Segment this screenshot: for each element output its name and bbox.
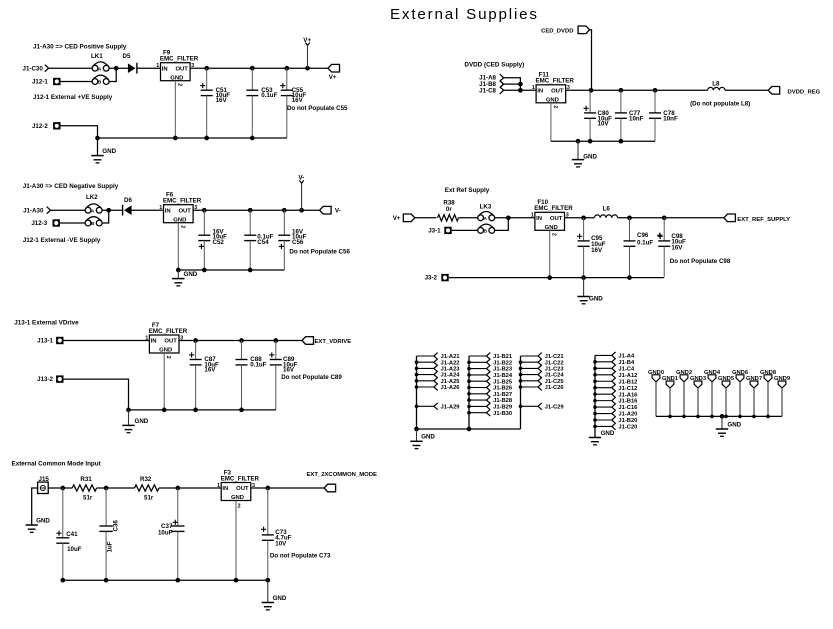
junction (589, 88, 594, 93)
pin J1-C24 (521, 374, 539, 376)
svg-text:16V: 16V (671, 244, 683, 251)
svg-text:J1-B26: J1-B26 (493, 386, 513, 392)
capacitor C78 (654, 90, 656, 113)
pin J1-B30 (469, 412, 487, 414)
svg-text:J1-A4: J1-A4 (618, 354, 635, 360)
wire bottom rail (98, 137, 287, 139)
svg-text:External Common Mode Input: External Common Mode Input (12, 461, 102, 468)
svg-text:10nF: 10nF (629, 115, 644, 122)
junction (162, 408, 167, 413)
svg-text:J12-1 External -VE Supply: J12-1 External -VE Supply (23, 237, 101, 244)
pin J1-B25 (469, 380, 487, 382)
capacitor C36 (105, 488, 107, 526)
svg-text:J1-A30 => CED Positive Supply: J1-A30 => CED Positive Supply (33, 44, 127, 51)
svg-text:J13-2: J13-2 (37, 376, 53, 383)
junction (619, 139, 624, 144)
svg-text:EXT_2XCOMMON_MODE: EXT_2XCOMMON_MODE (307, 472, 377, 478)
ground (721, 416, 723, 429)
capacitor C95 (583, 218, 585, 241)
wire (159, 487, 221, 489)
wire ground terminal rail (656, 415, 782, 417)
junction (653, 88, 658, 93)
svg-text:1: 1 (156, 63, 159, 69)
pin J1-B28 (469, 399, 487, 401)
svg-text:Do not Populate C56: Do not Populate C56 (289, 248, 350, 255)
svg-text:V+: V+ (329, 74, 337, 81)
terminal DVDD_REG (768, 87, 780, 95)
svg-text:EMC_FILTER: EMC_FILTER (163, 198, 202, 205)
junction (282, 208, 287, 213)
svg-text:B: B (483, 229, 487, 235)
svg-text:J1-B22: J1-B22 (493, 360, 512, 366)
svg-text:16V: 16V (216, 97, 228, 104)
junction (202, 208, 207, 213)
connector cluster J1-A4 to J1-C20 (594, 355, 596, 437)
svg-text:1: 1 (159, 205, 162, 211)
pin J1-C12 (595, 387, 612, 389)
junction (114, 66, 119, 71)
wire F6 ground pin (177, 223, 179, 270)
svg-text:GND: GND (102, 148, 116, 155)
wire (137, 67, 161, 69)
svg-text:10V: 10V (275, 540, 287, 547)
capacitor C54 (249, 210, 251, 235)
capacitor C98 (663, 218, 665, 241)
svg-text:16V: 16V (283, 367, 295, 374)
pin J1-C4 (595, 367, 612, 369)
svg-text:EMC_FILTER: EMC_FILTER (160, 56, 199, 63)
svg-text:GND: GND (231, 495, 244, 501)
svg-text:J3-1: J3-1 (428, 228, 441, 235)
svg-text:10uF: 10uF (158, 530, 173, 537)
svg-text:GND: GND (601, 430, 615, 437)
connector cluster J1-C21 to J1-C26 (520, 356, 522, 429)
svg-text:C41: C41 (66, 531, 78, 538)
wire (566, 89, 708, 91)
svg-text:16V: 16V (591, 247, 603, 254)
ground (416, 429, 418, 441)
svg-text:IN: IN (537, 88, 543, 94)
connector J13-1 (56, 337, 63, 344)
wire (49, 67, 93, 69)
wire (97, 487, 135, 489)
svg-text:J1-C21: J1-C21 (545, 354, 565, 360)
pin J1-C26 (521, 386, 539, 388)
svg-text:J13-1: J13-1 (37, 338, 53, 345)
junction (104, 578, 109, 583)
terminal EXT_REF_SUPPLY (724, 214, 736, 222)
svg-text:EXT_REF_SUPPLY: EXT_REF_SUPPLY (737, 217, 790, 223)
capacitor C41 (62, 488, 64, 538)
svg-text:C54: C54 (257, 239, 269, 246)
wire (64, 340, 150, 342)
pin J1-C16 (595, 406, 612, 408)
svg-text:J12-2: J12-2 (32, 123, 48, 130)
junction (239, 408, 244, 413)
svg-text:16V: 16V (204, 367, 216, 374)
wire (495, 217, 535, 219)
svg-text:0.1uF: 0.1uF (250, 361, 266, 368)
capacitor C73 (267, 488, 269, 535)
wire (452, 229, 478, 231)
capacitor C88 (241, 341, 243, 360)
svg-text:GND: GND (589, 296, 603, 303)
junction (126, 408, 131, 413)
svg-text:J1-A23: J1-A23 (441, 367, 461, 373)
wire (190, 67, 328, 69)
junction (95, 136, 100, 141)
ground (577, 141, 579, 159)
junction (273, 338, 278, 343)
capacitor C80 (589, 90, 591, 113)
pin J1-A16 (595, 393, 612, 395)
svg-text:1: 1 (217, 483, 220, 489)
svg-text:GND: GND (421, 434, 435, 441)
wire bottom rail (551, 140, 655, 142)
wire (64, 379, 129, 410)
pin J1-C23 (521, 367, 539, 369)
svg-text:External Supplies: External Supplies (390, 6, 539, 23)
svg-text:1uF: 1uF (107, 541, 114, 552)
terminal EXT_VDRIVE (302, 337, 314, 345)
svg-text:IN: IN (222, 486, 228, 492)
svg-text:J1-C29: J1-C29 (545, 404, 565, 410)
svg-text:IN: IN (162, 66, 168, 72)
wire bottom rail (129, 409, 276, 411)
svg-text:10V: 10V (598, 121, 610, 128)
wire F3 ground pin (235, 501, 237, 581)
pin J1-B23 (469, 368, 487, 370)
junction (204, 66, 209, 71)
svg-text:2: 2 (552, 105, 558, 108)
ground (267, 580, 269, 602)
junction (193, 338, 198, 343)
junction (234, 578, 239, 583)
svg-text:LK3: LK3 (480, 204, 492, 211)
junction (202, 268, 207, 273)
svg-text:J1-A24: J1-A24 (441, 373, 461, 379)
capacitor C56 (283, 210, 285, 235)
svg-text:J1-A12: J1-A12 (618, 373, 637, 379)
svg-text:OUT: OUT (236, 486, 249, 492)
pin J1-A26 (417, 386, 434, 388)
junction (662, 215, 667, 220)
wire bottom rail (63, 579, 268, 581)
junction (250, 66, 255, 71)
junction (547, 275, 552, 280)
terminal V+ (328, 64, 340, 72)
junction (581, 215, 586, 220)
capacitor C89 (275, 341, 277, 360)
junction (619, 88, 624, 93)
wire F10 ground pin (549, 230, 551, 276)
svg-text:(Do not populate L8): (Do not populate L8) (690, 101, 750, 108)
svg-text:J1-C22: J1-C22 (545, 360, 564, 366)
jumper LK1 row B (92, 79, 98, 85)
svg-text:LK2: LK2 (86, 194, 98, 201)
connector J3-1 (444, 227, 451, 234)
svg-text:0r: 0r (446, 206, 452, 213)
svg-text:J1-B21: J1-B21 (493, 354, 513, 360)
pin J1-C21 (521, 355, 539, 357)
svg-text:B: B (91, 221, 95, 227)
svg-text:A: A (98, 66, 102, 72)
junction (518, 88, 523, 93)
wire (61, 81, 93, 83)
svg-text:CED_DVDD: CED_DVDD (541, 29, 573, 35)
svg-text:J13-1 External VDrive: J13-1 External VDrive (14, 320, 79, 327)
svg-text:R32: R32 (140, 476, 152, 483)
junction (176, 268, 181, 273)
svg-text:GND: GND (159, 348, 172, 354)
svg-text:J1-A29: J1-A29 (441, 404, 461, 410)
svg-text:LK1: LK1 (91, 53, 103, 60)
svg-text:J1-C25: J1-C25 (545, 379, 565, 385)
svg-text:GND: GND (546, 97, 559, 103)
svg-text:J1-B20: J1-B20 (618, 418, 637, 424)
capacitor C55 (286, 68, 288, 90)
wire F7 ground pin (163, 353, 165, 410)
svg-text:GND: GND (173, 217, 186, 223)
ground (583, 278, 585, 297)
svg-text:V+: V+ (303, 37, 311, 44)
svg-text:51r: 51r (144, 495, 154, 502)
junction (627, 215, 632, 220)
svg-text:D5: D5 (123, 53, 131, 60)
svg-text:DVDD_REG: DVDD_REG (788, 90, 821, 96)
svg-text:J1-C23: J1-C23 (545, 367, 565, 373)
svg-text:IN: IN (536, 216, 542, 222)
wire (449, 277, 665, 279)
pin J1-C25 (521, 380, 539, 382)
svg-text:51r: 51r (83, 495, 93, 502)
svg-text:J1-A20: J1-A20 (618, 412, 637, 418)
svg-text:IN: IN (165, 208, 171, 214)
svg-text:J1-B25: J1-B25 (493, 379, 513, 385)
svg-text:0.1uF: 0.1uF (637, 240, 653, 247)
wire (618, 217, 724, 219)
svg-text:J3-2: J3-2 (425, 275, 438, 282)
svg-text:J1-C16: J1-C16 (618, 405, 638, 411)
ground (26, 524, 38, 526)
pin J1-B24 (469, 374, 487, 376)
pin J1-A12 (595, 374, 612, 376)
svg-text:J1-A30 => CED Negative Supply: J1-A30 => CED Negative Supply (23, 183, 119, 190)
svg-text:10nF: 10nF (663, 115, 678, 122)
svg-text:A: A (91, 208, 95, 214)
capacitor C51 (206, 68, 208, 90)
svg-text:J1-B24: J1-B24 (493, 373, 513, 379)
junction (284, 66, 289, 71)
svg-text:GND: GND (583, 154, 597, 161)
junction (506, 215, 511, 220)
svg-text:10uF: 10uF (67, 546, 82, 553)
svg-text:GND: GND (170, 75, 183, 81)
pin J1-A4 (595, 354, 612, 356)
svg-text:J1-A26: J1-A26 (441, 385, 461, 391)
svg-text:EMC_FILTER: EMC_FILTER (536, 78, 575, 85)
junction (627, 275, 632, 280)
wire F9 ground pin (174, 81, 176, 138)
junction (193, 408, 198, 413)
pin J1-A23 (417, 367, 434, 369)
wire (504, 78, 521, 91)
svg-text:J1-B4: J1-B4 (618, 360, 635, 366)
pin J1-A24 (417, 374, 434, 376)
svg-text:C56: C56 (292, 239, 304, 246)
junction (414, 427, 419, 432)
connector cluster J1-A21 to J1-A26 (416, 356, 418, 429)
pin J1-A29 (417, 405, 434, 407)
ground (128, 410, 130, 426)
svg-text:J1-A22: J1-A22 (441, 360, 460, 366)
wire (61, 126, 98, 156)
svg-text:J1-A25: J1-A25 (441, 379, 461, 385)
svg-text:J12-1 External +VE Supply: J12-1 External +VE Supply (33, 94, 113, 101)
junction (175, 486, 180, 491)
svg-text:Do not Populate C73: Do not Populate C73 (270, 553, 331, 560)
junction (299, 208, 304, 213)
wire (102, 210, 109, 223)
capacitor C52 (203, 210, 205, 235)
svg-text:J1-B27: J1-B27 (493, 392, 512, 398)
junction (581, 275, 586, 280)
junction (265, 486, 270, 491)
svg-text:OUT: OUT (551, 88, 564, 94)
pin J1-C20 (595, 425, 612, 427)
svg-text:J12-1: J12-1 (32, 79, 48, 86)
wire (109, 67, 128, 69)
svg-text:EMC_FILTER: EMC_FILTER (149, 328, 188, 335)
svg-text:IN: IN (151, 339, 157, 345)
junction (305, 66, 310, 71)
wire (48, 487, 72, 489)
svg-text:J1-C30: J1-C30 (23, 65, 44, 72)
svg-text:OUT: OUT (550, 216, 563, 222)
svg-text:GND: GND (545, 225, 558, 231)
svg-text:1: 1 (532, 85, 535, 91)
junction (720, 414, 725, 419)
pin J1-A20 (595, 413, 612, 415)
junction (60, 578, 65, 583)
svg-text:Do not Populate C98: Do not Populate C98 (670, 258, 731, 265)
connector J13-2 (56, 375, 63, 382)
connector J12-3 (53, 219, 60, 226)
wire (109, 68, 116, 81)
junction (239, 338, 244, 343)
svg-text:J1-C26: J1-C26 (545, 385, 565, 391)
svg-text:J1-C24: J1-C24 (545, 373, 565, 379)
svg-text:J1-B16: J1-B16 (618, 399, 638, 405)
junction (204, 136, 209, 141)
wire F11 ground pin (550, 103, 552, 141)
pin J1-B20 (595, 419, 612, 421)
svg-text:Do not Populate C89: Do not Populate C89 (281, 374, 342, 381)
svg-text:2: 2 (551, 233, 557, 236)
svg-text:GND: GND (36, 517, 50, 524)
svg-text:DVDD (CED Supply): DVDD (CED Supply) (464, 61, 524, 68)
svg-text:GND: GND (135, 418, 149, 425)
pin J1-B12 (595, 380, 612, 382)
svg-text:J1-C8: J1-C8 (479, 87, 496, 94)
junction (518, 82, 523, 87)
ground (97, 154, 99, 156)
junction (467, 427, 472, 432)
pin J1-B29 (469, 405, 487, 407)
svg-text:J1-A21: J1-A21 (441, 354, 461, 360)
svg-text:GND: GND (273, 595, 287, 602)
connector J3-2 (441, 274, 448, 281)
svg-text:OUT: OUT (178, 208, 191, 214)
pin J1-A25 (417, 380, 434, 382)
capacitor C53 (251, 68, 253, 90)
pin J1-A21 (417, 355, 434, 357)
pin J1-B21 (469, 355, 487, 357)
wire (415, 217, 437, 219)
svg-text:D6: D6 (124, 197, 132, 204)
svg-text:V-: V- (335, 208, 341, 215)
svg-text:0.1uF: 0.1uF (261, 92, 277, 99)
connector cluster J1-B21 to J1-B30 (468, 356, 470, 429)
junction (60, 486, 65, 491)
svg-text:J1-A16: J1-A16 (618, 392, 638, 398)
svg-text:J12-3: J12-3 (31, 220, 47, 227)
svg-text:OUT: OUT (164, 339, 177, 345)
wire (51, 209, 86, 211)
svg-text:EMC_FILTER: EMC_FILTER (221, 475, 260, 482)
capacitor C96 (629, 218, 631, 241)
junction (248, 268, 253, 273)
junction (173, 136, 178, 141)
svg-text:C52: C52 (213, 239, 225, 246)
junction (106, 208, 111, 213)
capacitor C77 (620, 90, 622, 113)
junction (576, 139, 581, 144)
svg-text:J1-B29: J1-B29 (493, 405, 513, 411)
junction (250, 136, 255, 141)
wire (504, 89, 536, 91)
svg-text:GND: GND (184, 271, 198, 278)
svg-text:J1-A30: J1-A30 (23, 207, 44, 214)
capacitor C87 (195, 341, 197, 360)
svg-text:J1-B28: J1-B28 (493, 398, 513, 404)
wire (102, 209, 123, 211)
pin J1-B27 (469, 393, 487, 395)
jumper LK2 row B (85, 220, 91, 226)
svg-text:1: 1 (145, 335, 148, 341)
pin J1-B26 (469, 387, 487, 389)
wire cluster ground rail (417, 428, 521, 430)
wire (60, 222, 85, 224)
wire (459, 217, 478, 219)
svg-text:J1-C20: J1-C20 (618, 425, 637, 431)
jumper LK3 row B (478, 228, 484, 234)
wire (251, 487, 324, 489)
pin J1-B4 (595, 361, 612, 363)
pin J1-B22 (469, 361, 487, 363)
wire (590, 30, 592, 91)
wire (504, 83, 521, 85)
wire (725, 89, 768, 91)
pin J1-C29 (521, 405, 539, 407)
svg-text:C96: C96 (637, 232, 649, 239)
svg-text:EMC_FILTER: EMC_FILTER (534, 205, 573, 212)
svg-text:1: 1 (531, 213, 534, 219)
svg-text:J1-B30: J1-B30 (493, 411, 512, 417)
junction (588, 139, 593, 144)
wire (32, 488, 38, 525)
svg-text:J1-C12: J1-C12 (618, 386, 637, 392)
